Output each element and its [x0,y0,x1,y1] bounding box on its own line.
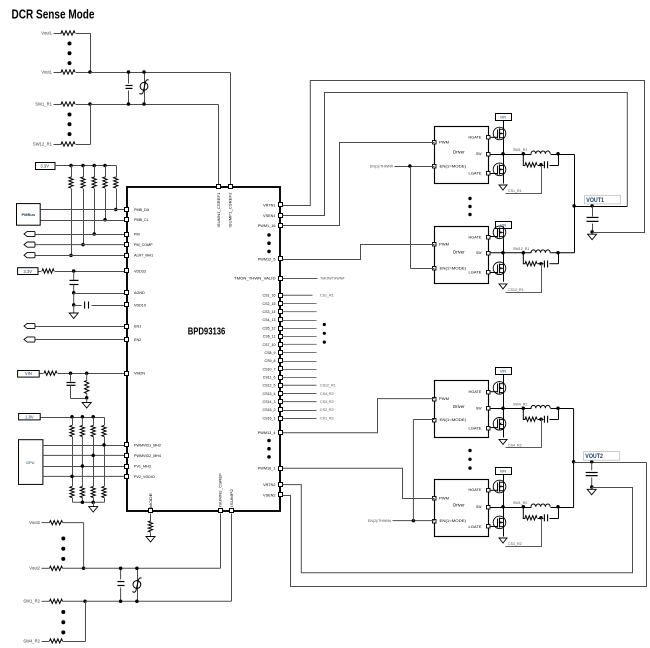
svg-text:PWM12_5: PWM12_5 [258,257,276,261]
svg-text:CS1_R2: CS1_R2 [508,542,522,546]
svg-text:CS9_8: CS9_8 [265,359,276,363]
svg-text:LGATE: LGATE [469,270,482,274]
svg-text:PMB_CL: PMB_CL [134,218,149,222]
svg-text:VSEN2: VSEN2 [263,493,275,497]
svg-text:EN(1)/THWN#: EN(1)/THWN# [370,164,393,168]
svg-text:PMBus: PMBus [22,212,36,217]
svg-text:VIN: VIN [500,115,507,119]
svg-text:ISUMP1_CSREF2: ISUMP1_CSREF2 [229,193,233,228]
svg-text:Vout2: Vout2 [29,520,40,525]
svg-text:PWMVID2_MH4: PWMVID2_MH4 [134,454,161,458]
svg-text:SW1_R1: SW1_R1 [513,148,527,152]
svg-text:TMON_THWN_VALID: TMON_THWN_VALID [234,276,276,280]
svg-text:ISUMN2_CSREF: ISUMN2_CSREF [219,472,223,507]
svg-text:SW: SW [476,407,482,411]
svg-text:EN(1=MODE): EN(1=MODE) [440,164,467,168]
svg-text:CS6_11: CS6_11 [263,335,276,339]
svg-text:PMB_DA: PMB_DA [134,208,150,212]
svg-text:CS12_5: CS12_5 [263,384,276,388]
svg-text:VDD33: VDD33 [134,269,146,273]
svg-text:SW12_R1: SW12_R1 [33,142,53,147]
svg-text:CS3_14: CS3_14 [263,310,276,314]
svg-text:CS13_4: CS13_4 [263,392,276,396]
svg-text:CS14_3: CS14_3 [263,400,276,404]
svg-text:Vout1: Vout1 [41,70,52,75]
svg-text:CS4_R2: CS4_R2 [320,392,334,396]
svg-text:Driver: Driver [453,404,465,409]
svg-text:HGATE: HGATE [469,235,482,239]
svg-text:CS11_6: CS11_6 [263,376,276,380]
svg-text:VOUT1: VOUT1 [586,197,604,204]
svg-text:PWM: PWM [439,242,449,246]
svg-text:GPU: GPU [26,460,35,465]
svg-text:VIN: VIN [500,469,507,473]
svg-text:CS4_13: CS4_13 [263,318,276,322]
svg-text:VOUT2: VOUT2 [585,453,603,460]
svg-text:SW1_R1: SW1_R1 [35,102,52,107]
svg-text:CS3_R2: CS3_R2 [320,400,334,404]
svg-text:LGATE: LGATE [469,171,482,175]
svg-text:PWMVID1_MH2: PWMVID1_MH2 [134,443,161,447]
svg-text:PWM: PWM [439,496,449,500]
svg-text:SW1_R2: SW1_R2 [23,599,40,604]
svg-text:LGATE: LGATE [469,525,482,529]
svg-text:CS5_12: CS5_12 [263,326,276,330]
svg-text:CS1_R1: CS1_R1 [508,189,522,193]
svg-text:VRTN1: VRTN1 [263,203,275,207]
svg-text:Driver: Driver [453,249,465,254]
svg-text:CS1_R1: CS1_R1 [320,294,334,298]
svg-text:CS15_2: CS15_2 [263,408,276,412]
svg-text:PV1_MH3: PV1_MH3 [134,464,151,468]
svg-text:TMON/THWN#: TMON/THWN# [320,276,344,280]
svg-text:PV2_VDDIO: PV2_VDDIO [134,475,155,479]
svg-text:3.3V: 3.3V [23,269,32,274]
svg-text:PWM: PWM [439,397,449,401]
svg-text:1.8V: 1.8V [25,415,34,420]
svg-text:CS4_R2: CS4_R2 [508,443,522,447]
svg-text:PM_COMP: PM_COMP [134,243,153,247]
svg-text:MODE: MODE [149,492,153,508]
svg-text:CS1_16: CS1_16 [263,294,276,298]
svg-text:CS10_7: CS10_7 [263,367,276,371]
svg-text:HGATE: HGATE [469,135,482,139]
svg-text:DCR Sense Mode: DCR Sense Mode [12,7,95,22]
svg-text:EN(1=MODE): EN(1=MODE) [440,519,467,523]
svg-text:VMON: VMON [134,372,145,376]
svg-text:VSEN1: VSEN1 [263,214,275,218]
svg-text:HGATE: HGATE [469,488,482,492]
svg-text:EN(2)/THWN#: EN(2)/THWN# [368,519,391,523]
svg-text:VDD1X: VDD1X [134,303,147,307]
svg-text:CS8_9: CS8_9 [265,351,276,355]
svg-text:SW: SW [476,505,482,509]
svg-text:CS12_R1: CS12_R1 [508,288,524,292]
svg-text:ALRT_MH1: ALRT_MH1 [134,254,153,258]
svg-text:PWM16_1: PWM16_1 [258,467,276,471]
svg-text:CS1_R2: CS1_R2 [320,416,334,420]
svg-text:Driver: Driver [453,502,465,507]
svg-text:VRTN2: VRTN2 [263,483,275,487]
svg-text:3.3V: 3.3V [40,163,49,168]
svg-text:SW4_R2: SW4_R2 [23,638,40,643]
svg-text:AGND: AGND [134,291,145,295]
svg-text:EN2: EN2 [134,338,141,342]
svg-text:VIN: VIN [500,369,507,373]
svg-text:EN(1=MODE): EN(1=MODE) [440,418,467,422]
svg-text:ISUMN1_CSREF1: ISUMN1_CSREF1 [217,193,221,228]
svg-text:EN(1=MODE): EN(1=MODE) [440,266,467,270]
svg-text:CS7_10: CS7_10 [263,343,276,347]
svg-text:Vout1: Vout1 [41,31,52,36]
svg-text:PWM: PWM [439,140,449,144]
svg-text:LGATE: LGATE [469,426,482,430]
svg-text:ISUMP2: ISUMP2 [230,489,234,507]
svg-text:PWM1_16: PWM1_16 [258,224,276,228]
svg-text:SW1_R2: SW1_R2 [513,501,527,505]
svg-text:PWM13_4: PWM13_4 [258,431,276,435]
svg-text:BPD93136: BPD93136 [188,326,226,337]
svg-text:CS12_R1: CS12_R1 [320,384,336,388]
svg-text:PM: PM [134,232,140,236]
svg-text:VIN: VIN [25,371,32,376]
svg-text:CS16_1: CS16_1 [263,416,276,420]
svg-text:SW: SW [476,251,482,255]
svg-text:CS2_R2: CS2_R2 [320,408,334,412]
svg-text:HGATE: HGATE [469,390,482,394]
svg-text:SW12_R1: SW12_R1 [513,247,529,251]
svg-text:SW: SW [476,152,482,156]
svg-text:Driver: Driver [453,149,465,154]
svg-text:SW4_R2: SW4_R2 [513,403,527,407]
svg-text:EN1: EN1 [134,324,141,328]
svg-text:CS2_15: CS2_15 [263,302,276,306]
svg-text:Vout2: Vout2 [29,566,40,571]
